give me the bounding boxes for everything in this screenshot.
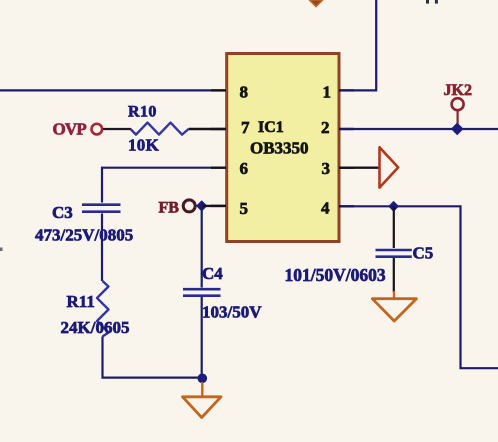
wire R11 to bottom junction bbox=[103, 337, 203, 378]
wire C3 to R11 bbox=[101, 214, 103, 282]
svg-text:R10: R10 bbox=[128, 104, 157, 121]
junction pin4/C5 bbox=[388, 201, 399, 212]
wire pin6 to left branch bbox=[102, 168, 225, 203]
junction FB node bbox=[196, 200, 207, 211]
top edge text remnant bbox=[426, 0, 438, 4]
wire junction down to C5 bbox=[393, 206, 395, 248]
pin 2 bbox=[321, 118, 354, 137]
svg-text:3: 3 bbox=[322, 159, 331, 178]
svg-text:5: 5 bbox=[240, 199, 249, 218]
pin 3 bbox=[322, 159, 355, 178]
wire pin8 horizontal from left edge to IC bbox=[0, 89, 225, 91]
pin 4 bbox=[321, 199, 354, 218]
wire pin3 stub bbox=[340, 166, 380, 168]
svg-text:FB: FB bbox=[159, 200, 180, 217]
svg-text:6: 6 bbox=[240, 159, 249, 178]
svg-text:OB3350: OB3350 bbox=[250, 139, 309, 158]
capacitor C4 bbox=[183, 264, 262, 322]
node JK2 bbox=[444, 82, 472, 124]
junction JK2 on pin2 wire bbox=[451, 123, 464, 136]
wire FB junction down to C4 bbox=[201, 206, 203, 288]
capacitor C5 bbox=[285, 244, 434, 286]
power symbol partial at top bbox=[310, 0, 323, 7]
svg-text:473/25V/0805: 473/25V/0805 bbox=[35, 226, 133, 245]
wire pin4 to right then down to right edge bbox=[340, 206, 498, 368]
pin 5 bbox=[211, 199, 248, 218]
ground under C4/R11 bbox=[183, 382, 222, 418]
svg-text:R11: R11 bbox=[67, 292, 95, 311]
output arrow symbol at pin 3 bbox=[380, 147, 399, 187]
wire R10 to IC pin 7 bbox=[189, 128, 225, 130]
pin 6 bbox=[211, 159, 248, 178]
wire FB junction to IC pin 5 bbox=[202, 205, 225, 207]
capacitor C3 bbox=[35, 203, 133, 245]
junction bottom node bbox=[198, 374, 208, 384]
wire pin1 up to top edge bbox=[340, 0, 376, 90]
svg-text:OVP: OVP bbox=[53, 120, 87, 139]
svg-text:IC1: IC1 bbox=[258, 119, 284, 136]
node FB bbox=[159, 200, 196, 217]
svg-text:10K: 10K bbox=[128, 136, 160, 155]
resistor R10 bbox=[128, 104, 189, 155]
IC U1 OB3350 body bbox=[227, 54, 339, 242]
svg-text:103/50V: 103/50V bbox=[202, 303, 262, 322]
pin 1 bbox=[323, 83, 355, 102]
node OVP bbox=[53, 120, 103, 139]
svg-text:C5: C5 bbox=[413, 244, 434, 263]
svg-text:1: 1 bbox=[323, 83, 332, 102]
svg-text:7: 7 bbox=[241, 118, 250, 137]
pin 8 bbox=[211, 83, 248, 102]
resistor R11 bbox=[61, 281, 130, 337]
svg-text:8: 8 bbox=[240, 83, 249, 102]
svg-text:2: 2 bbox=[321, 118, 330, 137]
pin 7 bbox=[211, 118, 250, 137]
svg-text:C4: C4 bbox=[202, 264, 223, 283]
ground under C5 bbox=[372, 291, 416, 321]
wire C5 to ground bbox=[393, 258, 395, 292]
wire C4 to bottom junction bbox=[201, 297, 203, 379]
svg-text:4: 4 bbox=[321, 199, 330, 218]
svg-text:C3: C3 bbox=[52, 203, 73, 222]
left edge speck bbox=[0, 248, 3, 252]
wire OVP port to R10 bbox=[103, 128, 131, 130]
wire pin2 to right edge bbox=[340, 128, 498, 130]
svg-text:101/50V/0603: 101/50V/0603 bbox=[285, 265, 386, 285]
svg-text:24K/0605: 24K/0605 bbox=[61, 318, 130, 337]
svg-text:JK2: JK2 bbox=[444, 82, 472, 99]
